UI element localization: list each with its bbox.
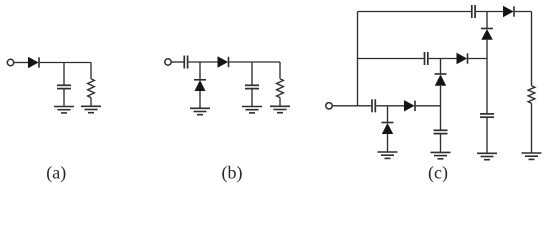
resistor RLc bbox=[528, 86, 535, 104]
wire node down to capacitor C6c bbox=[486, 59, 488, 114]
wire capacitor C2c to ground bbox=[440, 134, 442, 153]
capacitor C1a bbox=[57, 85, 71, 88]
wire capacitor C6c to ground bbox=[486, 117, 488, 153]
wire diode D1a to resistor R1a bbox=[39, 62, 91, 64]
wire capacitor C2b to ground bbox=[251, 89, 253, 107]
ground under R1a bbox=[81, 106, 101, 112]
capacitor C2c bbox=[434, 130, 448, 133]
svg-text:(c): (c) bbox=[428, 163, 448, 184]
ground under C1a bbox=[54, 107, 74, 113]
wire input to capacitor C1c bbox=[332, 105, 371, 107]
wire diode D2c to right node bbox=[468, 58, 488, 60]
wire node to resistor R1a bbox=[90, 63, 92, 79]
input terminal circuit c bbox=[326, 103, 332, 109]
capacitor C2b bbox=[245, 85, 259, 88]
ground under D1b bbox=[190, 108, 210, 114]
ground under C2b bbox=[242, 107, 262, 113]
diode D1c (series, bottom row, pointing right) bbox=[404, 100, 415, 111]
wire diode D1b to ground bbox=[199, 91, 201, 108]
svg-text:(b): (b) bbox=[222, 163, 243, 184]
diode D2b (series, pointing right) bbox=[218, 56, 229, 67]
svg-text:(a): (a) bbox=[46, 163, 66, 184]
diode D4c (shunt, pointing up) bbox=[481, 29, 493, 40]
wire resistor R1a to ground bbox=[90, 98, 92, 107]
wire capacitor C1c to diode D1c bbox=[376, 105, 404, 107]
wire capacitor C3c to diode D2c bbox=[429, 58, 457, 60]
diode D5c (shunt, pointing up) bbox=[435, 74, 447, 86]
wire bottom node down to capacitor C2c bbox=[440, 106, 442, 130]
diode D3c (series, top row, pointing right) bbox=[503, 6, 514, 17]
capacitor C1b (series) bbox=[184, 56, 187, 69]
diode D1b (shunt, pointing up) bbox=[194, 80, 206, 91]
diode D6c (shunt, pointing up) bbox=[382, 123, 394, 135]
resistor R1a bbox=[88, 79, 95, 98]
wire diode D4c to middle row bbox=[486, 40, 488, 59]
wire diode D3c to output corner bbox=[514, 11, 532, 13]
wire node to resistor R1b bbox=[279, 62, 281, 79]
ground under C2c bbox=[431, 152, 451, 158]
capacitor C5c (series, top row) bbox=[472, 5, 475, 18]
wire left riser x=357.5 bbox=[357, 12, 359, 106]
wire input to diode D1a bbox=[14, 62, 28, 64]
ground under D6c bbox=[378, 152, 398, 158]
diode D1a (series, pointing right) bbox=[28, 57, 39, 68]
ground under RLc bbox=[522, 153, 542, 159]
wire input to capacitor C1b bbox=[171, 61, 183, 63]
ground under R1b bbox=[270, 106, 290, 112]
capacitor C6c bbox=[480, 114, 494, 117]
wire middle node down to shunt diode D5c bbox=[440, 59, 442, 74]
wire resistor R1b to ground bbox=[279, 98, 281, 107]
wire capacitor C5c to diode D3c bbox=[476, 11, 503, 13]
wire right riser to resistor RLc bbox=[531, 12, 533, 86]
input terminal circuit b bbox=[165, 59, 171, 65]
capacitor C3c (series, middle row) bbox=[425, 52, 428, 65]
wire node to capacitor C2b bbox=[251, 62, 253, 85]
wire diode D5c to bottom row node bbox=[440, 86, 442, 106]
resistor R1b bbox=[277, 79, 284, 98]
ground under C6c bbox=[477, 153, 497, 159]
wire capacitor C1b to diode D2b bbox=[188, 61, 217, 63]
wire capacitor C1a to ground bbox=[63, 89, 65, 107]
wire resistor RLc to ground bbox=[531, 103, 533, 153]
wire top row left bbox=[358, 11, 472, 13]
wire top node down to shunt diode D4c bbox=[486, 12, 488, 29]
wire diode D1c to node bbox=[415, 105, 441, 107]
wire middle row bbox=[358, 58, 424, 60]
diode D2c (series, middle row, pointing right) bbox=[457, 53, 468, 64]
wire node to shunt diode D1b bbox=[199, 62, 201, 79]
wire node to capacitor C1a bbox=[63, 63, 65, 86]
wire node down to shunt diode D6c bbox=[387, 106, 389, 122]
capacitor C1c (series, bottom row) bbox=[372, 99, 375, 112]
wire diode D6c to ground bbox=[387, 134, 389, 152]
wire diode D2b to resistor R1b bbox=[229, 61, 281, 63]
input terminal circuit a bbox=[7, 59, 13, 65]
